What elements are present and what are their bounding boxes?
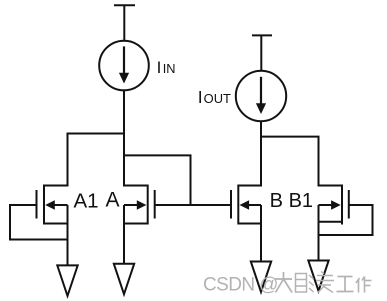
current source IOUT circle: [236, 71, 286, 121]
wire: branch to drain of A1: [68, 134, 125, 187]
transistor A1 (NMOS, faces left): [37, 185, 68, 225]
ground symbol under B: [251, 262, 271, 293]
current source IIN internal arrow: [119, 46, 129, 83]
svg-text:IIN: IIN: [157, 58, 176, 77]
svg-text:IOUT: IOUT: [198, 87, 231, 107]
ground symbol under A1: [57, 265, 77, 296]
supply terminal bar (IIN rail): [114, 4, 135, 6]
supply terminal bar (IOUT rail): [252, 34, 272, 36]
wire: source of B1 to ground: [318, 222, 320, 262]
svg-text:CSDN @: CSDN @: [203, 274, 278, 295]
watermark glyph 彪: [296, 274, 314, 293]
wire: IIN node to gate rail (diode connection): [124, 155, 191, 205]
wire: source of A to ground: [123, 224, 125, 265]
ground symbol under B1: [308, 261, 328, 292]
watermark glyph 工: [337, 277, 354, 292]
svg-text:A1: A1: [74, 190, 99, 213]
wire: gate feedback of B1 (gate to source): [319, 205, 373, 235]
wire: supply bar to IIN source top: [123, 5, 125, 41]
ground symbol under A: [114, 264, 134, 295]
watermark glyph 作: [356, 277, 372, 293]
wire: source of A1 to ground: [67, 224, 69, 267]
wire: IIN source bottom to drain of A: [123, 91, 125, 187]
svg-text:B: B: [270, 190, 283, 212]
current source IIN circle: [99, 41, 149, 91]
wire: supply bar to IOUT source top: [260, 35, 262, 71]
transistor A (NMOS, faces right): [124, 185, 155, 225]
wire: IOUT source bottom to drain of B: [260, 122, 262, 187]
svg-text:B1: B1: [289, 190, 313, 212]
wire: branch to drain of B1: [261, 137, 319, 187]
svg-text:A: A: [106, 189, 120, 212]
wire: source of B to ground: [260, 224, 262, 263]
transistor B1 (NMOS, faces right): [319, 185, 349, 225]
wire: gate feedback of A1 (gate to source): [10, 205, 68, 240]
wire: gate rail connecting gates of A and B: [155, 204, 232, 206]
watermark glyph 大: [275, 272, 292, 293]
transistor B (NMOS, faces left): [231, 185, 261, 225]
watermark glyph 爱: [316, 272, 334, 293]
current source IOUT internal arrow: [256, 77, 266, 114]
